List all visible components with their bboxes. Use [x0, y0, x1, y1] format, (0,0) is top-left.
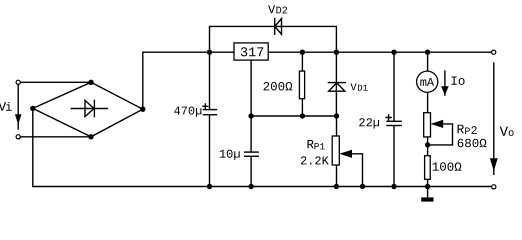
svg-text:D2: D2: [276, 6, 288, 17]
svg-text:R: R: [456, 122, 464, 137]
svg-text:200Ω: 200Ω: [263, 80, 294, 94]
svg-text:mA: mA: [420, 76, 435, 90]
svg-text:22µ: 22µ: [358, 116, 380, 130]
svg-text:P1: P1: [314, 141, 326, 152]
svg-text:680Ω: 680Ω: [457, 137, 488, 151]
svg-text:i: i: [5, 101, 12, 115]
svg-text:2: 2: [471, 125, 478, 138]
svg-text:317: 317: [240, 46, 264, 61]
svg-text:10µ: 10µ: [219, 148, 241, 162]
svg-text:o: o: [508, 128, 514, 140]
svg-text:2.2K: 2.2K: [300, 154, 330, 168]
svg-text:100Ω: 100Ω: [432, 161, 463, 175]
svg-text:470µ: 470µ: [173, 105, 202, 119]
svg-text:Io: Io: [450, 75, 465, 89]
svg-text:D1: D1: [357, 84, 368, 94]
